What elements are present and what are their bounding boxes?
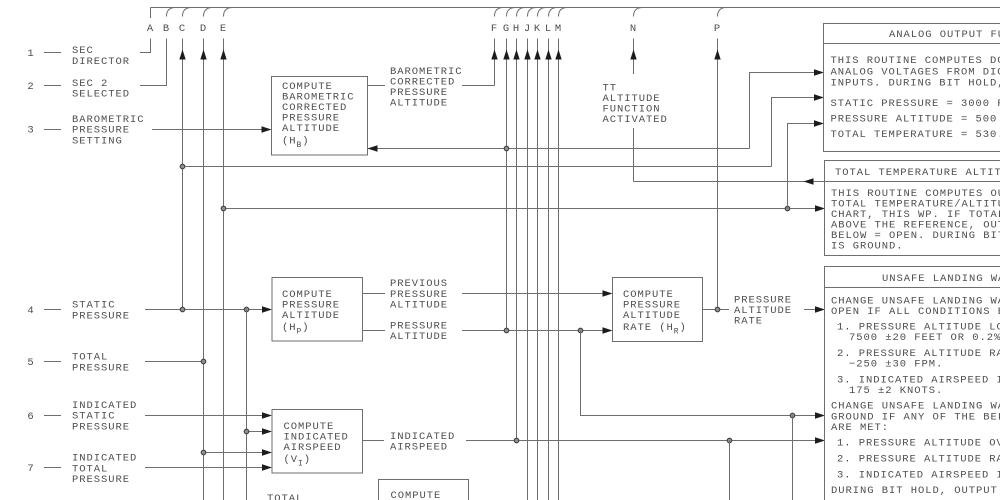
- svg-text:ALTITUDE: ALTITUDE: [390, 300, 448, 312]
- wire pin N lower vertical: [633, 128, 635, 182]
- svg-text:K: K: [534, 23, 541, 35]
- wire HB output left segment: [368, 85, 386, 87]
- TOTAL TEMPERATURE ALTITUDE title separator: [825, 181, 1000, 183]
- box U3 COMPUTE PRESSURE ALTITUDE RATE (HR): [613, 278, 703, 342]
- wire vertical C (static pressure riser): [182, 39, 184, 310]
- wire vertical M: [558, 39, 560, 500]
- svg-text:ALTITUDE: ALTITUDE: [623, 310, 681, 322]
- svg-text:ARE MET:: ARE MET:: [831, 422, 889, 434]
- wire input 7 to VI box: [145, 467, 263, 469]
- arrow left toward pin N: [804, 178, 814, 184]
- svg-text:DURING BIT HOLD, OUTPUT = GR: DURING BIT HOLD, OUTPUT = GR: [831, 485, 1000, 497]
- svg-text:2. PRESSURE ALTITUDE RATE OV: 2. PRESSURE ALTITUDE RATE OV: [837, 454, 1000, 466]
- wire N horizontal from total temperature box: [634, 181, 826, 183]
- wire vertical D (total pressure riser): [203, 39, 205, 500]
- arrow up into pin F: [491, 50, 497, 60]
- input 5 tick: [44, 361, 61, 363]
- junction E riser / tap: [221, 206, 226, 211]
- wire input 5 total pressure to D riser: [145, 361, 204, 363]
- wire vertical F (barometric corrected pressure altitude): [494, 39, 496, 86]
- svg-text:TOTAL TEMPERATURE ALTITUDE: TOTAL TEMPERATURE ALTITUDE: [835, 167, 1000, 179]
- wire riser down from pressure altitude branch: [792, 416, 794, 500]
- pin J bus-hop arc: [528, 8, 537, 17]
- wire vertical E: [223, 39, 225, 500]
- svg-text:F: F: [491, 23, 498, 35]
- arrow up into pin M: [555, 50, 561, 60]
- box ANALOG OUTPUT FUNCTION: [824, 24, 1000, 152]
- arrow up into pin E: [220, 50, 226, 60]
- svg-text:COMPUTE: COMPUTE: [391, 490, 442, 500]
- svg-text:1: 1: [27, 48, 34, 60]
- svg-text:1. PRESSURE ALTITUDE OVER 75: 1. PRESSURE ALTITUDE OVER 75: [837, 438, 1000, 450]
- wire vertical G (pressure altitude riser): [506, 39, 508, 331]
- input 3 tick: [44, 129, 61, 131]
- arrow up into pin J: [524, 50, 530, 60]
- svg-text:4: 4: [27, 305, 34, 317]
- pin K bus-hop arc: [538, 8, 547, 17]
- junction static pressure / pin C riser: [180, 307, 185, 312]
- svg-text:E: E: [220, 23, 227, 35]
- arrow up into pin G: [503, 50, 509, 60]
- wire pin A stub to input 1: [140, 39, 151, 53]
- arrow up into pin D: [200, 50, 206, 60]
- svg-text:5: 5: [27, 357, 34, 369]
- svg-text:RATE: RATE: [734, 316, 763, 328]
- pin C bus-hop arc: [183, 8, 192, 17]
- pin A bus corner: [150, 8, 152, 19]
- wire riser to analog output box input 1: [750, 73, 815, 149]
- svg-text:OPEN IF ALL CONDITIONS BELOW: OPEN IF ALL CONDITIONS BELOW: [831, 306, 1000, 318]
- wire riser to analog output box input 3: [788, 124, 815, 209]
- svg-text:IS GROUND.: IS GROUND.: [831, 241, 904, 253]
- svg-text:ACTIVATED: ACTIVATED: [603, 114, 668, 126]
- arrow up into pin C: [179, 50, 185, 60]
- svg-text:PRESSURE: PRESSURE: [72, 421, 130, 433]
- arrow into analog output box input 1: [814, 69, 824, 75]
- wire HP previous output right segment to rate box: [462, 293, 603, 295]
- svg-text:ALTITUDE: ALTITUDE: [390, 98, 448, 110]
- arrow up into pin K: [534, 50, 540, 60]
- svg-text:THIS ROUTINE COMPUTES DC: THIS ROUTINE COMPUTES DC: [831, 55, 1000, 67]
- svg-text:G: G: [503, 23, 510, 35]
- box U5 COMPUTE (bottom, clipped): [379, 480, 469, 500]
- pin G bus-hop arc: [507, 8, 516, 17]
- wire VI output left segment: [363, 440, 385, 442]
- svg-text:SETTING: SETTING: [72, 135, 123, 147]
- wire input 4 static pressure to HP box: [145, 309, 263, 311]
- arrow up into pin H: [513, 50, 519, 60]
- junction pressure altitude / G riser: [504, 328, 509, 333]
- wire HB output right segment to pin F: [462, 85, 495, 87]
- junction branch / VI input 2: [244, 429, 249, 434]
- wire pressure altitude branch down and right to unsafe landing box: [581, 331, 816, 416]
- input 2 tick: [44, 85, 61, 87]
- pin F bus-hop arc: [495, 8, 504, 17]
- junction G riser / feedback line: [504, 146, 509, 151]
- junction C riser / static tap: [180, 164, 185, 169]
- input 4 tick: [44, 309, 61, 311]
- box U1 COMPUTE BAROMETRIC CORRECTED PRESSURE ALTITUDE (HB): [272, 77, 368, 156]
- svg-text:D: D: [200, 23, 207, 35]
- arrow into HB box input: [262, 126, 272, 132]
- wire rate output right segment: [804, 309, 816, 311]
- pin D bus-hop arc: [204, 8, 213, 17]
- svg-text:M: M: [555, 23, 562, 35]
- svg-text:PRESSURE ALTITUDE = 500 FEET: PRESSURE ALTITUDE = 500 FEET: [831, 114, 1000, 126]
- box U2 COMPUTE PRESSURE ALTITUDE (HP): [272, 278, 363, 342]
- wire branch into VI box input 2: [247, 431, 264, 433]
- svg-text:6: 6: [27, 411, 34, 423]
- wire E tap to total temperature box: [224, 208, 816, 210]
- svg-text:C: C: [179, 23, 186, 35]
- svg-text:(VI): (VI): [284, 454, 312, 468]
- input 7 tick: [44, 467, 61, 469]
- svg-text:B: B: [163, 23, 170, 35]
- junction static pressure / branch down: [244, 307, 249, 312]
- arrow into rate box input 1: [603, 290, 613, 296]
- wire pin N upper stub: [633, 39, 635, 75]
- svg-text:7: 7: [27, 463, 34, 475]
- pin E bus-hop arc: [224, 8, 233, 17]
- arrow into analog output box input 3: [814, 120, 824, 126]
- arrow into unsafe landing box input 3: [815, 437, 825, 443]
- svg-text:PRESSURE: PRESSURE: [72, 474, 130, 486]
- svg-text:ANALOG OUTPUT FUNCTION: ANALOG OUTPUT FUNCTION: [889, 29, 1000, 41]
- pin B bus-hop arc: [167, 8, 176, 17]
- arrow up into pin P: [714, 50, 720, 60]
- svg-text:ALTITUDE: ALTITUDE: [390, 331, 448, 343]
- wire input 6 to VI box: [145, 415, 263, 417]
- svg-text:PRESSURE: PRESSURE: [72, 310, 130, 322]
- pin N bus-hop arc: [634, 8, 643, 17]
- svg-text:PRESSURE: PRESSURE: [72, 362, 130, 374]
- svg-text:7500 ±20 FEET OR 0.2% OF: 7500 ±20 FEET OR 0.2% OF: [849, 332, 1000, 344]
- svg-text:AIRSPEED: AIRSPEED: [284, 442, 342, 454]
- junction indicated airspeed / H riser: [514, 438, 519, 443]
- svg-text:UNSAFE LANDING WARNING: UNSAFE LANDING WARNING: [882, 273, 1000, 285]
- svg-text:P: P: [714, 23, 721, 35]
- svg-text:H: H: [513, 23, 520, 35]
- arrow into VI box input 3: [262, 449, 272, 455]
- wire indicated airspeed to unsafe landing box: [466, 440, 816, 442]
- junction tap / riser to analog output box input 3: [785, 206, 790, 211]
- box UNSAFE LANDING WARNING: [825, 267, 1000, 500]
- junction pressure altitude / branch to unsafe landing box: [578, 328, 583, 333]
- arrow into rate box input 2: [603, 327, 613, 333]
- svg-text:(HP): (HP): [282, 322, 310, 336]
- input 6 tick: [44, 415, 61, 417]
- wire pressure altitude feedback into HB box right side: [368, 148, 750, 150]
- arrow into VI box input 2: [262, 428, 272, 434]
- pin M bus-hop arc: [559, 8, 568, 17]
- arrow up into pin N: [630, 50, 636, 60]
- wire vertical branch static pressure down: [246, 310, 248, 500]
- svg-text:SELECTED: SELECTED: [72, 89, 130, 101]
- wire riser to analog output box input 2: [772, 98, 815, 167]
- arrow left into HB box right edge: [368, 145, 378, 151]
- wire branch into VI box input 3: [204, 452, 264, 454]
- ANALOG OUTPUT FUNCTION title separator: [824, 43, 1000, 45]
- junction indicated airspeed / riser down: [727, 438, 732, 443]
- pin P bus-hop arc: [718, 8, 727, 17]
- svg-text:3. INDICATED AIRSPEED IS OVER: 3. INDICATED AIRSPEED IS OVER: [837, 469, 1000, 481]
- svg-text:175 ±2 KNOTS.: 175 ±2 KNOTS.: [849, 385, 943, 397]
- svg-text:2: 2: [27, 81, 34, 93]
- wire vertical J: [527, 39, 529, 500]
- junction D riser / VI input 3: [201, 450, 206, 455]
- wire riser down from indicated airspeed: [729, 441, 731, 500]
- UNSAFE LANDING WARNING title separator: [825, 287, 1000, 289]
- pin L bus-hop arc: [549, 8, 558, 17]
- svg-text:INPUTS. DURING BIT HOLD,: INPUTS. DURING BIT HOLD,: [831, 78, 1000, 90]
- svg-text:DIRECTOR: DIRECTOR: [72, 56, 130, 68]
- svg-text:N: N: [630, 23, 637, 35]
- arrow into VI box input 4: [262, 464, 272, 470]
- arrow into analog output box input 2: [814, 94, 824, 100]
- wire vertical H (indicated airspeed riser): [516, 39, 518, 441]
- wire rate box output segment: [703, 309, 730, 311]
- wire pin B stub to input 2: [140, 39, 167, 86]
- pin H bus-hop arc: [517, 8, 526, 17]
- svg-text:J: J: [524, 23, 531, 35]
- svg-text:AIRSPEED: AIRSPEED: [390, 442, 448, 454]
- box U4 COMPUTE INDICATED AIRSPEED (VI): [272, 410, 363, 474]
- svg-text:ALTITUDE: ALTITUDE: [282, 123, 340, 135]
- svg-text:A: A: [147, 23, 154, 35]
- svg-text:TOTAL TEMPERATURE = 530.: TOTAL TEMPERATURE = 530.: [831, 129, 1000, 141]
- arrow into VI box input 1: [262, 412, 272, 418]
- wire HP previous output left segment: [363, 293, 386, 295]
- arrow into unsafe landing box input 2: [815, 412, 825, 418]
- arrow into HP box input: [262, 306, 272, 312]
- svg-text:−250 ±30 FPM.: −250 ±30 FPM.: [849, 359, 943, 371]
- wire input 3 to HB box: [152, 129, 263, 131]
- svg-text:STATIC PRESSURE = 3000 FEET: STATIC PRESSURE = 3000 FEET: [831, 98, 1000, 110]
- junction total pressure / pin D riser: [201, 359, 206, 364]
- wire static pressure tap to analog output box: [183, 166, 772, 168]
- junction branch / riser down: [790, 413, 795, 418]
- wire vertical P (pressure altitude rate riser): [717, 39, 719, 310]
- svg-text:ALTITUDE: ALTITUDE: [282, 310, 340, 322]
- svg-text:3: 3: [27, 125, 34, 137]
- junction rate output / pin P riser: [715, 307, 720, 312]
- arrow up into pin L: [545, 50, 551, 60]
- svg-text:L: L: [545, 23, 552, 35]
- input 1 tick: [44, 52, 61, 54]
- svg-text:(HB): (HB): [282, 136, 310, 150]
- wire vertical L: [548, 39, 550, 500]
- wire vertical K: [537, 39, 539, 500]
- bus line (top horizontal): [151, 7, 1000, 9]
- svg-text:TOTAL: TOTAL: [267, 493, 303, 500]
- box TOTAL TEMPERATURE ALTITUDE: [825, 161, 1000, 256]
- svg-text:RATE (HR): RATE (HR): [623, 322, 687, 336]
- wire HP pressure altitude output left segment: [363, 330, 386, 332]
- arrow into total temperature box input: [815, 205, 825, 211]
- arrow into unsafe landing box input 1: [815, 306, 825, 312]
- wire HP pressure altitude output right segment: [462, 330, 603, 332]
